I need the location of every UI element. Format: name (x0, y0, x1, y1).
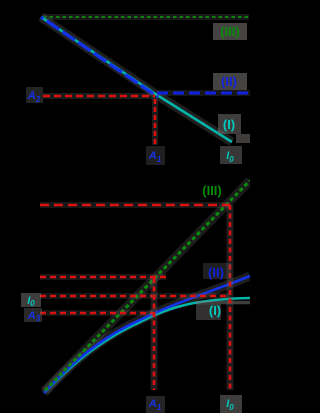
svg-text:(I): (I) (209, 303, 221, 318)
gray label box (II) bottom (203, 263, 231, 279)
blue dashed horizontal line (II) top panel (157, 92, 250, 95)
gray label box (I) bottom (196, 304, 221, 320)
gray label box A1 top panel (146, 146, 165, 165)
halo of green dashed horizontal (43, 14, 249, 20)
green dashed diagonal (III) bottom panel (45, 181, 250, 391)
svg-text:(I): (I) (223, 117, 235, 132)
gray band right edge (236, 134, 250, 143)
cyan investment line I0 (top panel) (41, 17, 232, 142)
blue curve (II) bottom panel (44, 276, 250, 393)
halo red vertical top (152, 99, 158, 145)
red dashed horizontal y=313 (40, 312, 153, 314)
gray label box A1 bottom (146, 396, 165, 413)
red dashed vertical marker (top panel) (154, 99, 157, 145)
gray label box left A3 (24, 308, 42, 322)
halo of green diagonal (45, 181, 250, 391)
svg-text:(II): (II) (221, 74, 237, 89)
red dashed horizontal y=205 (40, 204, 230, 207)
gray label box (III) top (213, 23, 247, 40)
halo red vertical x=229 (227, 205, 234, 390)
halo red horizontal y=205 (40, 202, 230, 208)
gray label box left I0 (21, 293, 41, 307)
cyan curve (I) bottom panel (44, 298, 250, 393)
svg-text:(II): (II) (208, 265, 224, 280)
halo red horizontal y=96 (43, 93, 155, 99)
gray label box A2 left (26, 87, 43, 103)
halo of blue dashed horizontal (II) (157, 90, 250, 96)
gray label box I0 bottom (220, 395, 242, 413)
red dashed vertical x=229 bottom panel (229, 205, 232, 390)
gray label box (II) top (213, 73, 247, 90)
halo red horizontals left (40, 274, 166, 280)
halo of top descending lines (41, 17, 232, 142)
blue steep line (top panel) (41, 17, 158, 97)
red dashed horizontal y=277 (40, 276, 166, 278)
red dashed horizontal marker (top panel) (43, 95, 155, 97)
gray band under cyan flat part (196, 301, 250, 305)
svg-text:(III): (III) (202, 183, 222, 198)
red dashed horizontal y=296 (40, 295, 230, 297)
svg-text:(III): (III) (220, 24, 240, 39)
gray label box I0 top (220, 146, 242, 164)
green dashed horizontal line (top panel) (43, 16, 249, 18)
gray label box (I) top (218, 114, 241, 134)
halo of bottom curve bundle (44, 276, 250, 393)
halo red vertical x=154 (151, 278, 158, 390)
red dashed vertical x=154 bottom panel (153, 278, 156, 390)
